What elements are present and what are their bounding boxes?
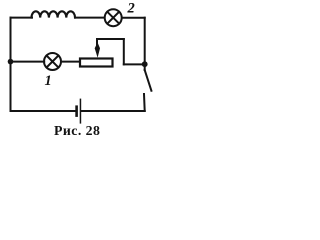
- lamp 2 circle: [105, 9, 122, 26]
- wire: bottom horizontal right of battery: [81, 110, 144, 112]
- svg-text:2: 2: [127, 1, 135, 17]
- wire: right vertical upper: [144, 18, 146, 64]
- wire: bottom horizontal left of battery: [11, 110, 76, 112]
- svg-text:1: 1: [45, 73, 52, 89]
- switch lower contact stub: [143, 94, 146, 111]
- lamp 1 circle: [44, 53, 61, 70]
- wire: lamp 1 to rheostat: [61, 61, 80, 63]
- wire: wiper top horizontal: [97, 38, 124, 40]
- switch lever (open): [145, 70, 152, 91]
- svg-text:Рис. 28: Рис. 28: [54, 123, 100, 138]
- wire: left vertical: [10, 18, 12, 111]
- switch upper stub: [144, 64, 146, 70]
- rheostat body R: [80, 59, 113, 67]
- rheostat wiper arrowhead: [95, 44, 100, 58]
- rheostat wiper stem: [96, 39, 98, 46]
- lamp 1 cross: [47, 56, 59, 68]
- junction dot on left wire: [8, 59, 14, 65]
- junction dot on right wire: [142, 61, 148, 67]
- wire: middle branch (left wire to lamp 1): [11, 61, 45, 63]
- wire: coil to lamp 2: [75, 17, 104, 19]
- lamp 2 cross: [107, 12, 119, 24]
- wire: wiper to right-wire junction: [124, 63, 145, 65]
- battery short plate (negative): [75, 105, 78, 117]
- battery long plate (positive): [80, 99, 82, 124]
- wire: top segment left of coil: [11, 17, 33, 19]
- inductor coil: [32, 11, 76, 17]
- wire: wiper right vertical: [123, 39, 125, 64]
- wire: lamp 2 to top-right corner: [122, 17, 145, 19]
